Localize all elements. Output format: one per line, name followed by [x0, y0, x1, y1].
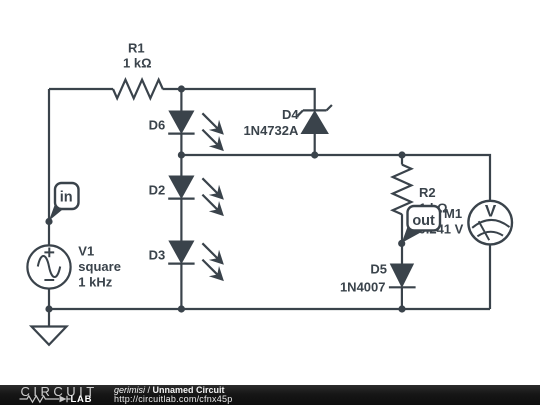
footer credit line — [114, 386, 225, 396]
svg-text:1N4732A: 1N4732A — [243, 123, 299, 138]
svg-text:1 kHz: 1 kHz — [78, 275, 112, 290]
wire D3 to bottom rail — [180, 264, 182, 309]
footer logo squiggle — [19, 394, 71, 404]
LED D2 — [168, 176, 224, 216]
ground — [32, 309, 67, 345]
resistor R1 — [113, 80, 163, 99]
LED D6 — [168, 111, 224, 151]
wire top rail left of R1 — [49, 88, 113, 90]
junction R2 rail2 — [398, 151, 405, 158]
svg-text:D6: D6 — [149, 117, 166, 132]
footer bar — [0, 385, 540, 405]
svg-text:out: out — [412, 213, 435, 229]
svg-text:V: V — [485, 202, 497, 221]
junction D4 rail2 — [311, 151, 318, 158]
resistor R2 — [393, 165, 412, 215]
voltage source V1 — [27, 245, 70, 288]
voltmeter M1 — [468, 201, 512, 245]
svg-text:square: square — [78, 259, 121, 274]
wire rail2 to voltmeter corner — [181, 155, 490, 201]
wire R2 to D5 — [401, 214, 403, 264]
wire bottom rail — [49, 308, 490, 310]
footer logo CIRCUIT — [21, 385, 98, 398]
wire voltmeter bottom — [489, 244, 491, 309]
wire V1 bottom — [48, 289, 50, 309]
svg-text:V1: V1 — [78, 244, 94, 259]
wire top rail from R1 to D4 corner — [163, 89, 315, 110]
zener diode D4 — [298, 105, 332, 133]
wire D5 to bottom rail — [401, 287, 403, 309]
net flag out — [398, 206, 440, 247]
wire D4 to rail2 — [314, 133, 316, 155]
junction bottom V1 — [45, 305, 52, 312]
diode D5 — [389, 264, 416, 287]
junction top of D6 — [178, 85, 185, 92]
footer url line — [114, 395, 233, 405]
svg-text:D3: D3 — [149, 247, 166, 262]
svg-text:in: in — [60, 190, 73, 206]
LED D3 — [168, 241, 224, 281]
junction rail2 at LED chain — [178, 151, 185, 158]
svg-text:R1: R1 — [128, 41, 145, 56]
wire D6 stem — [180, 89, 182, 111]
svg-text:R2: R2 — [419, 185, 436, 200]
wire top-left vertical from top rail to V1 — [48, 89, 50, 245]
net flag in — [45, 183, 78, 225]
footer logo LAB — [71, 395, 93, 405]
wire D2 to D3 — [180, 199, 182, 242]
wire D6 to D2 — [180, 134, 182, 177]
svg-text:1N4007: 1N4007 — [340, 280, 386, 295]
svg-text:D4: D4 — [282, 107, 299, 122]
wire R2 top stub — [401, 155, 403, 165]
junction bottom D5 — [398, 305, 405, 312]
svg-text:1 kΩ: 1 kΩ — [123, 56, 152, 71]
junction bottom LED chain — [178, 305, 185, 312]
svg-text:D5: D5 — [370, 262, 387, 277]
svg-text:M1: M1 — [444, 206, 462, 221]
svg-text:D2: D2 — [149, 182, 166, 197]
